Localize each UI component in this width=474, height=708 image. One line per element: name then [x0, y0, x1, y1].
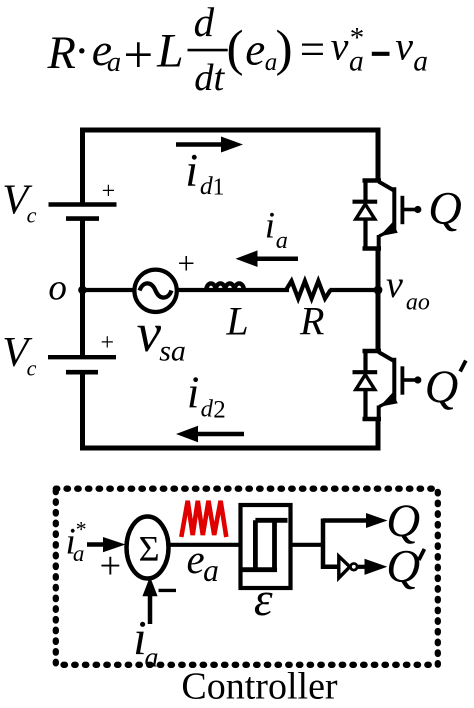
wire source to resistor: [175, 288, 289, 292]
wire left rail upper segment: [80, 128, 85, 205]
svg-text:+: +: [101, 330, 115, 356]
svg-text:R: R: [299, 298, 324, 343]
label V_c top: [2, 177, 36, 228]
wire resistor to node a: [330, 288, 379, 292]
svg-text:+: +: [100, 545, 122, 587]
wire block to branch: [291, 543, 326, 547]
svg-text:a: a: [203, 553, 219, 588]
svg-text:v: v: [331, 23, 349, 68]
label Qprime: [425, 361, 466, 413]
svg-text:*: *: [76, 517, 87, 541]
label e_a: [187, 537, 219, 588]
svg-text:L: L: [225, 298, 248, 343]
label i_d2: [187, 368, 226, 424]
svg-text:a: a: [349, 46, 364, 78]
resistor R: [286, 281, 331, 299]
minus sign at summer: [159, 589, 177, 592]
svg-text:a: a: [107, 47, 121, 78]
svg-text:e: e: [245, 24, 265, 74]
transistor Qprime (IGBT with antiparallel diode): [353, 351, 422, 419]
red sawtooth ripple: [181, 501, 226, 537]
wire o to source: [83, 288, 137, 292]
AC source v_sa circle: [134, 270, 176, 312]
label i_a feedback: [133, 611, 158, 673]
svg-text:Q: Q: [425, 362, 459, 413]
svg-text:i: i: [187, 368, 200, 418]
inverter NOT gate: [339, 556, 357, 578]
svg-text:ε: ε: [254, 574, 273, 626]
svg-text:c: c: [27, 355, 37, 380]
svg-text:i: i: [185, 145, 198, 196]
svg-text:R: R: [47, 28, 76, 79]
wire left rail middle segment: [80, 219, 85, 358]
svg-text:2: 2: [213, 396, 226, 423]
svg-text:a: a: [276, 227, 288, 254]
wire top rail: [80, 128, 381, 133]
svg-text:1: 1: [213, 174, 225, 200]
svg-text:dt: dt: [194, 57, 225, 99]
svg-text:a: a: [145, 643, 159, 674]
svg-text:·: ·: [74, 25, 89, 76]
svg-text:v: v: [386, 264, 403, 306]
svg-text:sa: sa: [159, 335, 186, 368]
battery V_c bottom short plate: [66, 370, 98, 375]
arrow i_a: [236, 250, 299, 267]
node o junction dot: [78, 286, 87, 295]
label i_a* reference: [66, 517, 87, 566]
wire bottom rail: [80, 446, 381, 451]
label i_a: [265, 205, 288, 254]
svg-text:a: a: [413, 46, 428, 78]
svg-text:a: a: [73, 541, 85, 566]
svg-text:L: L: [156, 25, 183, 77]
arrow reference input: [87, 537, 126, 552]
svg-text:=: =: [300, 25, 325, 75]
inductor L: [206, 283, 244, 290]
battery V_c top long plate: [49, 202, 117, 206]
battery V_c top short plate: [66, 216, 99, 221]
svg-text:c: c: [27, 203, 37, 228]
svg-text:Controller: Controller: [181, 666, 338, 708]
arrow i_d1: [176, 137, 243, 153]
label v_sa: [137, 302, 186, 368]
wire summer to hysteresis block: [168, 543, 240, 547]
label i_d1: [185, 145, 224, 200]
arrow to Q output: [323, 513, 388, 528]
label v_ao: [386, 264, 430, 316]
arrow i_d2: [176, 426, 244, 443]
wire right rail mid segment: [376, 249, 381, 352]
svg-text:(: (: [227, 20, 244, 77]
wire right rail lower segment: [376, 419, 381, 451]
svg-text:Q: Q: [428, 183, 462, 234]
svg-text:Σ: Σ: [139, 529, 160, 569]
svg-text:ao: ao: [406, 290, 430, 316]
hysteresis comparator block: [241, 505, 291, 588]
svg-text:i: i: [265, 205, 275, 246]
sine wave inside source: [140, 283, 172, 297]
svg-text:d: d: [194, 0, 215, 45]
battery V_c bottom long plate: [48, 355, 116, 359]
wire to inverter: [323, 565, 340, 570]
equation R*ea + L d/dt(ea) = va* - va: [47, 0, 429, 99]
svg-text:o: o: [48, 268, 67, 309]
svg-text:Q: Q: [386, 541, 420, 593]
svg-text:d: d: [200, 171, 213, 200]
label V_c bottom: [2, 329, 36, 380]
svg-text:): ): [276, 20, 293, 77]
branch vertical wire: [321, 519, 326, 570]
svg-text:v: v: [395, 23, 413, 68]
controller dashed box: [56, 489, 438, 665]
svg-text:+: +: [102, 178, 116, 204]
svg-text:e: e: [187, 537, 205, 582]
label Qprime output: [386, 541, 424, 593]
node v_ao junction dot: [374, 286, 383, 295]
svg-text:v: v: [137, 302, 162, 363]
transistor Q (IGBT with antiparallel diode): [353, 181, 422, 249]
wire left rail lower segment: [80, 372, 85, 450]
wire right rail upper segment: [376, 128, 381, 181]
svg-text:d: d: [201, 395, 214, 422]
arrow to Qprime output: [358, 559, 388, 575]
svg-text:Q: Q: [386, 495, 420, 547]
summing junction sigma: [127, 517, 169, 579]
svg-text:+: +: [123, 26, 153, 84]
svg-text:+: +: [178, 246, 195, 281]
arrow feedback up: [142, 577, 157, 625]
